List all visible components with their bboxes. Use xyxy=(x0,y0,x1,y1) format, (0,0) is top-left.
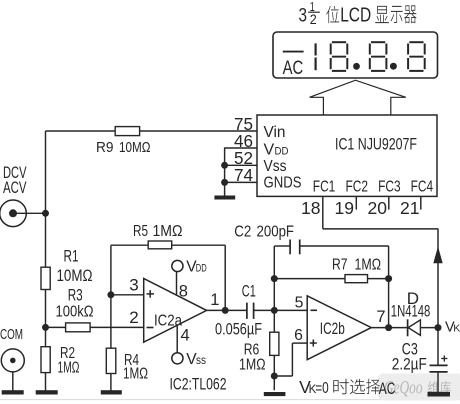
junction R1/R2/R3 node xyxy=(42,324,49,331)
junction C1/R6 node xyxy=(271,307,278,314)
svg-text:10MΩ: 10MΩ xyxy=(119,139,151,156)
watermark box xyxy=(378,374,460,401)
ground COM xyxy=(2,390,24,394)
label C2 200pF xyxy=(234,223,294,240)
IC2a minus sign xyxy=(147,327,154,329)
IC1 pin name Vin xyxy=(264,124,286,141)
svg-text:1N4148: 1N4148 xyxy=(391,302,431,320)
IC1 pin name Vss xyxy=(264,158,287,175)
IC2b pin 6 label xyxy=(294,327,303,344)
IC1 pin 18 stub wire xyxy=(322,196,324,229)
svg-text:R5: R5 xyxy=(133,223,148,240)
svg-text:C1: C1 xyxy=(242,281,256,300)
svg-text:AC: AC xyxy=(379,379,396,398)
ground R4 xyxy=(101,390,122,394)
svg-text:2.2µF: 2.2µF xyxy=(392,355,427,373)
block arrow from IC1 to LCD xyxy=(310,80,406,115)
label R4 1M xyxy=(123,352,148,383)
svg-text:1MΩ: 1MΩ xyxy=(239,356,266,373)
LCD decimal point 1 xyxy=(353,63,360,70)
svg-text:2: 2 xyxy=(129,308,138,327)
IC1 pin name GNDS xyxy=(264,175,302,192)
op-amp IC2b xyxy=(307,296,371,360)
label VK xyxy=(445,319,460,335)
resistor R2 xyxy=(41,347,50,373)
label D xyxy=(407,289,419,308)
label C1 value xyxy=(215,320,262,338)
junction pin74/ground xyxy=(221,179,228,186)
IC1 pin 74 number xyxy=(234,165,253,185)
watermark GeQoo xyxy=(384,378,451,399)
LCD decimal point 2 xyxy=(390,63,397,70)
svg-text:1MΩ: 1MΩ xyxy=(123,366,148,383)
IC2b pin 5 label xyxy=(295,295,304,312)
label R3 100k xyxy=(56,286,94,321)
svg-text:3: 3 xyxy=(129,276,138,295)
IC2a pin 3 label xyxy=(129,276,138,295)
svg-text:IC2:TL062: IC2:TL062 xyxy=(170,375,227,394)
junction input node xyxy=(42,210,49,217)
label R2 1M xyxy=(58,345,80,377)
ground C3 bar emphasis xyxy=(428,392,450,397)
resistor R5 xyxy=(148,241,172,249)
wire pin75 Vin from R9 xyxy=(46,130,258,132)
diode D 1N4148 xyxy=(408,319,421,336)
IC2b minus sign xyxy=(311,309,318,311)
ground input rail xyxy=(36,390,58,394)
svg-text:IC1 NJU9207F: IC1 NJU9207F xyxy=(335,135,417,154)
IC1 pin name FC1 xyxy=(313,179,336,196)
label: 3 1/2 digit LCD display title xyxy=(299,0,417,27)
arrow up on VK rail xyxy=(433,246,442,263)
label VDD xyxy=(186,258,207,275)
svg-text:IC2b: IC2b xyxy=(320,320,345,338)
label R5 1M xyxy=(133,223,183,240)
IC2b plus sign xyxy=(310,340,317,347)
svg-text:1MΩ: 1MΩ xyxy=(153,223,183,240)
IC IC1 NJU9207F body xyxy=(257,115,437,196)
capacitor C2 xyxy=(290,240,300,255)
LCD digit 8 (first) xyxy=(330,41,349,72)
IC2a pin 4 label xyxy=(181,327,190,345)
wire diode to VK xyxy=(420,327,441,329)
resistor R4 xyxy=(106,348,116,373)
IC1 label xyxy=(335,135,417,154)
svg-text:Vin: Vin xyxy=(264,124,286,141)
IC1 pin 21 stub xyxy=(420,196,422,209)
junction R7 right xyxy=(385,275,392,282)
label C3 value xyxy=(392,355,427,373)
label R6 1M xyxy=(239,341,266,373)
wire pin46 VDD xyxy=(225,147,257,149)
svg-text:ss: ss xyxy=(196,355,206,367)
label IC2:TL062 xyxy=(170,375,227,394)
svg-text:R3: R3 xyxy=(68,286,83,305)
label 1N4148 xyxy=(391,302,431,320)
LCD digit 8 (third) xyxy=(407,41,426,72)
wire R7 row xyxy=(274,278,388,280)
svg-text:5: 5 xyxy=(295,295,304,312)
svg-text:200pF: 200pF xyxy=(257,223,295,240)
IC1 pin 18 number xyxy=(301,198,321,218)
LCD display outline xyxy=(273,32,438,78)
ground IC1 supplies xyxy=(214,196,235,200)
IC2a pin 1 label xyxy=(210,291,219,309)
svg-text:3: 3 xyxy=(299,6,308,27)
svg-text:19: 19 xyxy=(335,198,355,218)
wire left loop vertical xyxy=(273,246,275,390)
svg-text:100kΩ: 100kΩ xyxy=(56,303,94,320)
IC2a pin 4 stem xyxy=(176,326,178,353)
IC2a plus sign xyxy=(147,290,155,298)
wire IC1 supply-ground vertical xyxy=(224,147,226,195)
wire IC2b pin6 xyxy=(274,343,307,376)
label C3 xyxy=(402,340,418,358)
label R7 1M xyxy=(332,256,381,273)
LCD digit 8 (second) xyxy=(369,41,388,72)
wire mid rail R5/R4 vertical xyxy=(110,245,112,390)
svg-text:R1: R1 xyxy=(64,246,79,265)
IC2a pin 8 label xyxy=(179,282,188,300)
svg-text:FC2: FC2 xyxy=(346,179,369,196)
jack COM xyxy=(1,349,24,372)
capacitor C1 xyxy=(247,303,254,319)
label C1 xyxy=(242,281,256,300)
svg-text:C2: C2 xyxy=(234,223,251,240)
svg-text:0.056µF: 0.056µF xyxy=(215,320,262,338)
svg-text:K: K xyxy=(453,322,460,334)
op-amp IC2a xyxy=(144,279,207,343)
svg-text:FC3: FC3 xyxy=(378,179,401,196)
svg-text:1MΩ: 1MΩ xyxy=(58,360,80,377)
svg-text:ACV: ACV xyxy=(3,179,27,197)
label COM xyxy=(0,327,23,343)
resistor R6 xyxy=(270,332,279,355)
IC1 pin 19 stub xyxy=(355,196,357,209)
wire input vertical rail xyxy=(45,131,47,391)
IC2b pin 7 label xyxy=(376,308,385,326)
label R9 10M xyxy=(96,139,151,156)
wire pin3 node to IC2a xyxy=(111,294,144,296)
svg-text:DD: DD xyxy=(275,146,289,158)
junction pin52/ground xyxy=(221,162,228,169)
resistor R1 xyxy=(41,267,50,289)
wire C2 top xyxy=(274,245,388,247)
junction output/R7 xyxy=(385,324,392,331)
wire pin74 GNDS xyxy=(225,181,257,183)
wire R3 row to IC2a pin2 xyxy=(46,326,144,328)
svg-text:AC: AC xyxy=(283,58,304,79)
IC1 pin 75 number xyxy=(234,114,253,134)
junction VK node xyxy=(435,324,442,331)
ground R6/IC2b xyxy=(264,392,286,396)
junction pin3 node xyxy=(107,291,114,298)
IC1 pin name FC2 xyxy=(346,179,369,196)
resistor R9 xyxy=(115,127,139,136)
wire right loop vertical xyxy=(388,246,390,328)
svg-text:GNDS: GNDS xyxy=(264,175,302,192)
label DCV ACV xyxy=(3,164,27,197)
terminal Vss circle xyxy=(172,353,183,364)
svg-text:LCD: LCD xyxy=(340,5,371,27)
svg-text:18: 18 xyxy=(301,198,321,218)
ground C3 xyxy=(428,392,450,397)
svg-text:7: 7 xyxy=(376,308,385,326)
note VK=0 selects AC xyxy=(299,377,395,398)
IC1 pin 20 number xyxy=(368,198,388,218)
IC1 pin name VDD xyxy=(264,142,289,159)
input jack DCV/ACV xyxy=(0,200,26,227)
IC1 pin name FC4 xyxy=(411,179,434,196)
IC1 pin 20 stub xyxy=(388,196,390,209)
LCD annunciator AC with overline xyxy=(283,52,304,79)
wire R5 feedback vertical xyxy=(224,245,226,310)
svg-text:R7: R7 xyxy=(332,256,348,273)
junction R7 left xyxy=(271,275,278,282)
svg-text:FC4: FC4 xyxy=(411,179,434,196)
IC1 pin 52 number xyxy=(234,148,253,168)
svg-text:4: 4 xyxy=(181,327,190,345)
watermark strip line xyxy=(0,399,460,401)
wire C1 to IC2b pin5 xyxy=(254,309,308,311)
IC1 pin 46 number xyxy=(234,131,253,151)
capacitor C3 xyxy=(430,355,448,372)
wire pin18 to VK rail xyxy=(323,228,439,230)
resistor R3 xyxy=(66,323,91,332)
IC2a pin 2 label xyxy=(129,308,138,327)
svg-text:=0: =0 xyxy=(315,380,329,397)
wire R5 feedback top xyxy=(111,244,225,246)
svg-text:21: 21 xyxy=(400,198,420,218)
svg-text:2: 2 xyxy=(310,12,317,27)
LCD digit 1 xyxy=(315,43,317,70)
wire pin52 Vss xyxy=(225,164,257,166)
svg-text:6: 6 xyxy=(294,327,303,344)
wire IC2b output xyxy=(371,327,407,329)
svg-text:IC2a: IC2a xyxy=(154,313,182,330)
junction R6 bottom xyxy=(271,373,278,380)
wire IC2a output xyxy=(207,309,247,311)
svg-text:Vss: Vss xyxy=(264,158,287,175)
IC2a pin 8 stem xyxy=(176,272,178,296)
label R1 10M xyxy=(57,246,93,285)
wire COM to ground xyxy=(12,372,14,391)
wire VK rail vertical xyxy=(437,229,439,365)
terminal VDD circle xyxy=(172,260,183,271)
svg-text:8: 8 xyxy=(179,282,188,300)
svg-text:1MΩ: 1MΩ xyxy=(355,256,382,273)
svg-text:1: 1 xyxy=(210,291,219,309)
wire C3 to ground xyxy=(437,372,439,392)
IC1 pin name FC3 xyxy=(378,179,401,196)
svg-text:20: 20 xyxy=(368,198,388,218)
svg-text:FC1: FC1 xyxy=(313,179,336,196)
label Vss xyxy=(186,351,206,368)
svg-text:COM: COM xyxy=(0,327,23,343)
resistor R7 xyxy=(345,275,368,283)
svg-text:DD: DD xyxy=(196,262,207,274)
IC1 pin 19 number xyxy=(335,198,355,218)
wire DCV jack to node xyxy=(16,212,46,214)
junction output/feedback xyxy=(222,307,229,314)
IC1 pin 21 number xyxy=(400,198,420,218)
svg-text:V: V xyxy=(264,142,275,159)
svg-text:10MΩ: 10MΩ xyxy=(57,266,93,285)
svg-text:R9: R9 xyxy=(96,139,114,156)
